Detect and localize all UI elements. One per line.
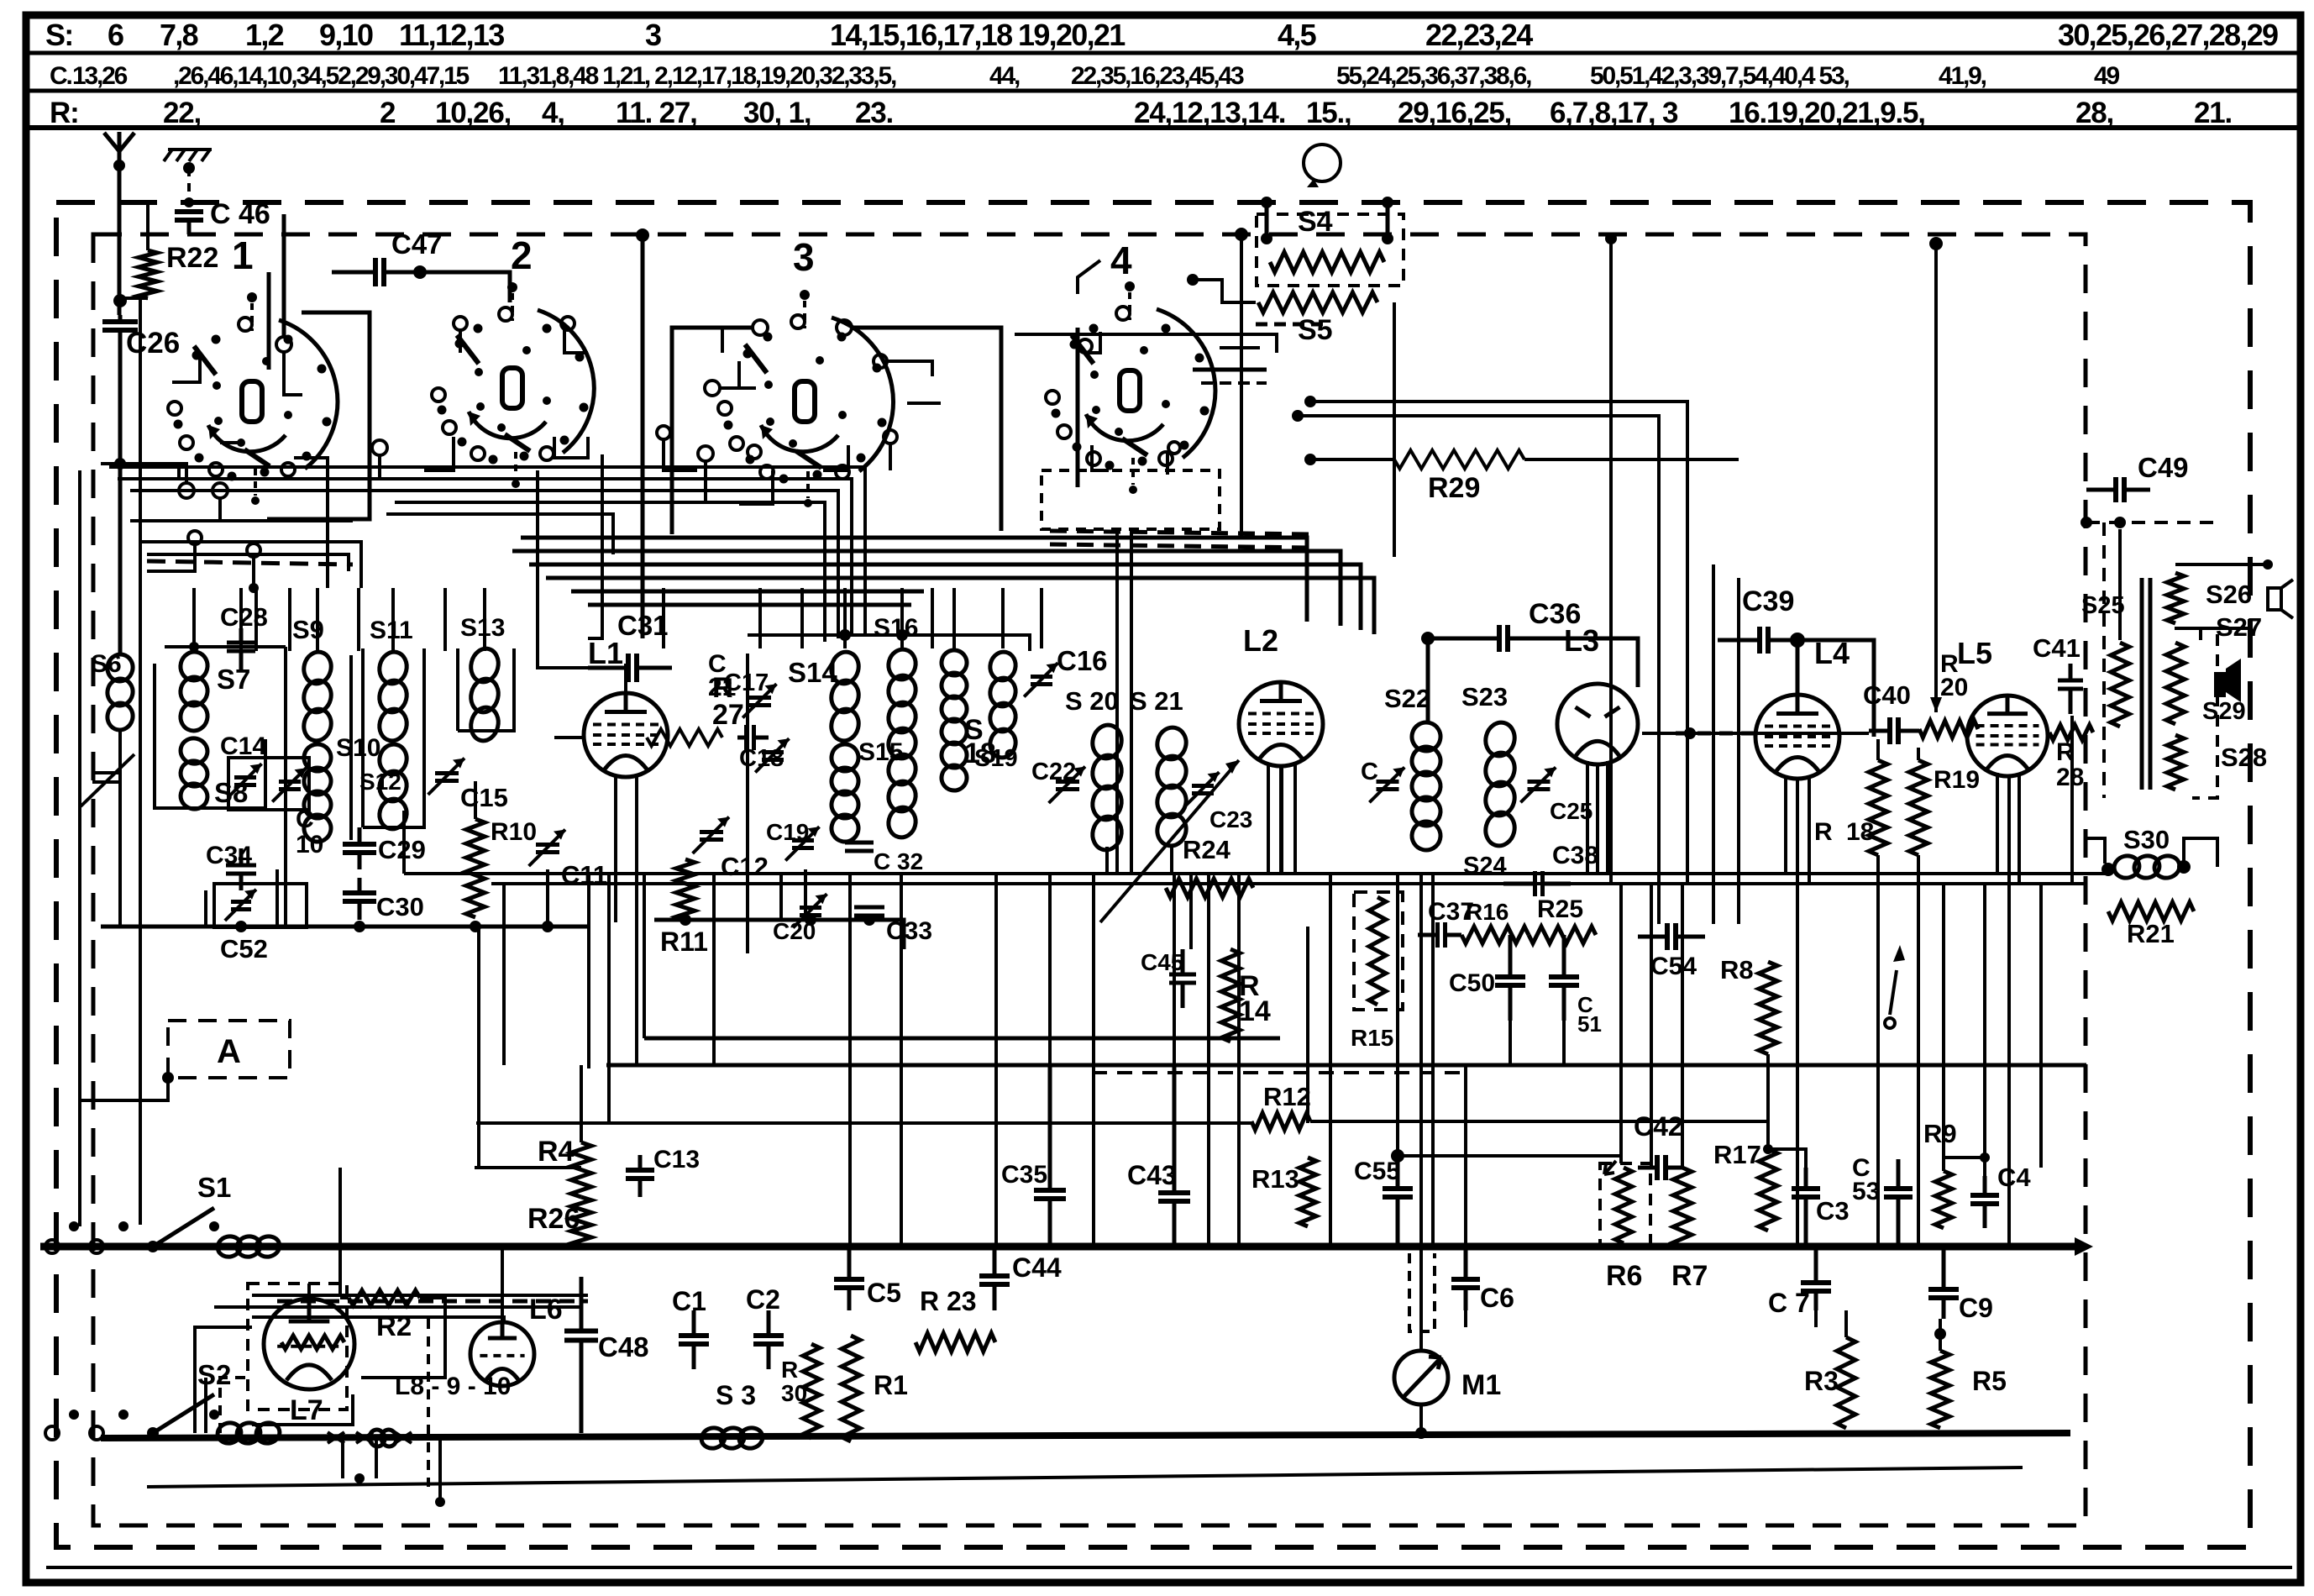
svg-text:22,: 22,	[163, 97, 201, 129]
svg-text:4,5: 4,5	[1278, 18, 1317, 52]
wire vert20	[1306, 927, 1309, 1123]
wire L7 bundle2	[214, 1305, 580, 1309]
capacitor C4	[1983, 1176, 1987, 1195]
capacitor C13	[638, 1155, 643, 1170]
wire drop M4	[931, 588, 934, 648]
resistor L7 grid	[281, 1336, 344, 1349]
wire bundle w2b	[386, 514, 613, 554]
wire vert32	[1766, 1054, 1770, 1149]
varcap C16	[1031, 677, 1052, 685]
inductor L8 row	[328, 1432, 412, 1443]
capacitor C5	[847, 1247, 852, 1279]
wire L1 grid left	[554, 736, 584, 739]
svg-text:C 32: C 32	[874, 848, 923, 874]
wire vert30	[1650, 884, 1653, 1168]
svg-text:28,: 28,	[2075, 97, 2113, 129]
capacitor C31	[588, 666, 628, 670]
wire R2 right down	[361, 1298, 445, 1378]
wire C11 bottom	[546, 869, 549, 927]
wire wafer3 right contacts	[874, 354, 887, 368]
capacitor C43	[1173, 1065, 1177, 1193]
varcap C17	[749, 698, 771, 706]
wire L1 top	[624, 664, 627, 693]
wire vert6	[712, 874, 716, 1065]
switch arm bottom	[1890, 970, 1897, 1015]
L7 dashed box	[248, 1284, 347, 1410]
speaker top	[2268, 588, 2281, 610]
wire vert31	[1681, 884, 1684, 1168]
wire transformer dashed left	[2102, 522, 2106, 798]
svg-text:R: R	[781, 1357, 798, 1383]
wire drop L9	[536, 588, 539, 651]
switch S2	[45, 1426, 59, 1440]
inductor S2coil	[216, 1420, 244, 1446]
capacitor C55	[1396, 1156, 1400, 1189]
wire bundle w3b	[512, 551, 1341, 626]
capacitor C29	[358, 827, 362, 844]
svg-text:S28: S28	[2221, 743, 2267, 772]
wire bundle left1	[109, 467, 865, 635]
svg-text:C19: C19	[766, 819, 809, 845]
varcap C14	[234, 778, 256, 785]
wire v1347 long	[1130, 529, 1133, 874]
wire h1236	[644, 1037, 1280, 1041]
resistor R19	[1909, 760, 1928, 855]
wire vert9	[848, 874, 852, 1245]
svg-text:R: R	[1814, 818, 1833, 846]
svg-text:30: 30	[781, 1380, 807, 1406]
capacitor C6	[1464, 1247, 1468, 1279]
svg-text:R22: R22	[166, 242, 218, 274]
resistor R7	[1673, 1168, 1692, 1247]
svg-text:C42: C42	[1634, 1111, 1683, 1142]
wire vbot0	[1464, 1310, 1467, 1327]
wire wafer4 box	[1076, 328, 1080, 487]
svg-text:15.,: 15.,	[1306, 97, 1351, 129]
inductor S9	[301, 649, 334, 687]
capacitor C34	[239, 848, 244, 865]
svg-text:R9: R9	[1923, 1119, 1957, 1148]
antenna	[104, 132, 134, 165]
wire L7 bundle hatch	[277, 1299, 588, 1304]
svg-text:1: 1	[232, 234, 254, 277]
resistor R12	[1251, 1113, 1310, 1130]
wire R18R19 tops	[1876, 739, 1880, 760]
inductor S1coil	[216, 1234, 244, 1259]
svg-text:M1: M1	[1461, 1369, 1501, 1401]
wire S4 right	[1386, 202, 1390, 239]
svg-text:C55: C55	[1354, 1158, 1400, 1185]
svg-text:C2: C2	[746, 1284, 780, 1315]
wire vert5	[662, 588, 665, 648]
wire wafer2 left contacts	[372, 440, 387, 455]
capacitor C40	[1869, 729, 1890, 733]
wire v405	[338, 1168, 342, 1295]
wire R22 top	[146, 204, 150, 250]
svg-text:C22: C22	[1031, 759, 1076, 785]
wire bundle w3c	[529, 564, 1361, 630]
resistor S25	[2111, 643, 2129, 727]
resistor R30	[803, 1344, 820, 1438]
svg-text:L4: L4	[1814, 636, 1850, 670]
svg-text:C13: C13	[653, 1146, 700, 1173]
capacitor C45	[1181, 949, 1185, 974]
inductor S10	[302, 742, 334, 774]
wire h1337 right	[1310, 1120, 1768, 1123]
svg-text:L5: L5	[1957, 636, 1992, 670]
capacitor C35	[1048, 1065, 1052, 1190]
resistor S5	[1258, 292, 1377, 312]
svg-text:C15: C15	[460, 783, 508, 812]
svg-text:C30: C30	[376, 892, 424, 921]
wire h1268 hatch	[1092, 1071, 1470, 1074]
wire L6 top	[501, 1247, 504, 1324]
wire S26 to speaker	[2175, 563, 2268, 566]
wire wafer1 contact d	[247, 543, 260, 557]
svg-text:20: 20	[1940, 674, 1968, 701]
varcap left of S6	[81, 754, 134, 806]
wire bundle w3f	[588, 603, 911, 607]
svg-text:S5: S5	[1298, 314, 1333, 346]
wire wafer1 box right	[267, 312, 370, 519]
svg-text:11,31,8,48 1,21, 2,12,17,18,19: 11,31,8,48 1,21, 2,12,17,18,19,20,32,33,…	[498, 62, 896, 90]
inductor S20	[1089, 722, 1126, 761]
wire L7 bottom box	[252, 1394, 353, 1425]
header row separator S/C	[26, 51, 2301, 55]
wire C36 node	[1421, 632, 1435, 645]
wire drop M2	[843, 588, 847, 648]
wire vert10	[900, 874, 903, 1245]
svg-text:C1: C1	[672, 1286, 706, 1316]
wire hatch L3L4	[1676, 732, 1760, 736]
svg-text:C45: C45	[1141, 949, 1183, 975]
wire S-block box bottom	[654, 920, 904, 949]
wire S13 to wafer	[483, 588, 486, 648]
wire v717	[588, 454, 602, 638]
svg-text:R29: R29	[1428, 472, 1480, 504]
wire left col b	[78, 588, 81, 1226]
svg-text:30,25,26,27,28,29: 30,25,26,27,28,29	[2058, 18, 2278, 52]
wire bundle w3a	[521, 538, 1307, 622]
svg-text:R:: R:	[50, 97, 79, 129]
wire bus y1035	[404, 872, 2108, 875]
svg-text:C9: C9	[1959, 1293, 1993, 1323]
svg-text:C44: C44	[1012, 1252, 1062, 1283]
inductor S12	[376, 742, 410, 778]
wire vert40	[2070, 716, 2074, 884]
wire L3 cathode leads	[1586, 761, 1589, 874]
resistor R24	[1166, 879, 1253, 897]
wire antenna down	[78, 470, 81, 588]
wire bundle left2	[118, 479, 852, 635]
svg-text:R16: R16	[1466, 899, 1509, 925]
resistor R1	[842, 1336, 860, 1441]
resistor R8	[1759, 962, 1777, 1054]
wire S20 bottom	[1105, 847, 1109, 874]
svg-text:19,20,21: 19,20,21	[1018, 18, 1126, 52]
wire wafer1 top feed	[282, 214, 286, 336]
resistor R10	[466, 819, 485, 917]
inductor S15	[829, 742, 862, 774]
svg-text:A: A	[217, 1033, 241, 1070]
wire L1 cathode leads	[614, 774, 617, 922]
dial lamp circle	[1304, 144, 1341, 181]
wire drop L8	[483, 588, 486, 651]
svg-text:C38: C38	[1552, 842, 1598, 869]
capacitor C44	[993, 1247, 997, 1276]
wire wafer3 box	[672, 328, 752, 534]
svg-text:3: 3	[793, 235, 815, 279]
wire vert26	[1509, 1021, 1512, 1065]
capacitor C38	[1503, 882, 1535, 886]
svg-text:R7: R7	[1671, 1260, 1708, 1292]
wire bus2 to L7 left	[204, 1378, 207, 1433]
vacuum tube L3	[1557, 684, 1638, 764]
inductor S21	[1154, 724, 1189, 762]
wire wafer3 runs	[739, 361, 756, 388]
inductor S18	[939, 648, 969, 678]
inductor S7	[177, 649, 210, 684]
wire vert24	[1431, 874, 1435, 1245]
svg-text:6,7,8,17, 3: 6,7,8,17, 3	[1550, 97, 1678, 129]
svg-text:C39: C39	[1742, 585, 1794, 617]
wire long h478	[1310, 402, 1687, 884]
resistor R15 dashed box	[1354, 892, 1403, 1010]
wire L7 top to R2	[307, 1284, 311, 1299]
vacuum tube L2	[1239, 682, 1323, 766]
wire S27 top link	[2175, 628, 2201, 640]
svg-text:S14: S14	[788, 657, 837, 688]
svg-text:41,9,: 41,9,	[1939, 62, 1986, 90]
dashed chassis frame inner	[93, 234, 2086, 1525]
capacitor C54	[1638, 935, 1667, 939]
wire vbot1	[1814, 1310, 1818, 1327]
wire M1 leads	[1419, 1247, 1423, 1351]
svg-text:50,51,42,3,39,7,54,40,4 53,: 50,51,42,3,39,7,54,40,4 53,	[1590, 62, 1849, 90]
wire v2040	[1712, 564, 1715, 924]
capacitor C33	[854, 907, 884, 916]
inductor S16	[885, 647, 919, 683]
resistor R23	[916, 1333, 995, 1352]
wire C31 left	[538, 470, 588, 668]
svg-text:L2: L2	[1243, 623, 1278, 658]
wire bundle left3	[130, 491, 838, 638]
varcap C23	[1192, 786, 1214, 794]
wire S4 left	[1265, 202, 1269, 239]
wire C39 node	[1790, 633, 1805, 648]
wire drop L0	[192, 588, 196, 651]
wire bundle w3d	[546, 578, 1374, 634]
svg-text:S2: S2	[197, 1359, 231, 1390]
wire L8 leads	[341, 1438, 344, 1478]
meter M1	[1394, 1351, 1448, 1404]
svg-text:21.: 21.	[2194, 97, 2232, 129]
wire wafer1 runs	[172, 357, 200, 382]
svg-text:C35: C35	[1001, 1161, 1047, 1189]
resistor R17	[1759, 1149, 1777, 1231]
resistor R21	[2108, 902, 2194, 921]
resistor R22	[139, 250, 157, 298]
svg-text:R8: R8	[1720, 955, 1754, 984]
varcap C22	[1056, 782, 1079, 790]
capacitor C47	[332, 270, 375, 275]
wire vbot2	[1844, 1310, 1848, 1337]
wire wafer1 box left	[267, 272, 271, 370]
vacuum tube L7	[264, 1299, 354, 1389]
svg-text:30, 1,: 30, 1,	[743, 97, 811, 129]
varcap C11	[536, 845, 559, 853]
wire drop M5	[952, 588, 956, 648]
capacitor C50	[1509, 935, 1513, 977]
varcap C52box	[214, 884, 307, 927]
svg-text:C6: C6	[1480, 1283, 1514, 1313]
wire h1390 left	[475, 1166, 581, 1169]
svg-text:C40: C40	[1863, 680, 1911, 710]
svg-text:51: 51	[1577, 1011, 1602, 1037]
varcap C24	[1377, 782, 1399, 790]
wire S5 left lead	[1193, 280, 1256, 302]
inductor S6	[105, 652, 136, 684]
wire vert11	[994, 874, 998, 1245]
wire C47 junction	[413, 265, 427, 279]
inductor S19	[987, 649, 1018, 683]
wire R9 top	[1944, 1158, 1985, 1176]
wire R22 bottom	[120, 297, 148, 300]
wire h1337 left	[476, 1121, 1251, 1125]
wire drop M3	[900, 588, 904, 648]
svg-text:R21: R21	[2127, 919, 2175, 948]
svg-text:11,12,13: 11,12,13	[399, 18, 504, 52]
wire v2305	[1934, 244, 1938, 712]
header row bottom line	[26, 125, 2301, 130]
svg-text:C50: C50	[1449, 969, 1495, 997]
svg-text:C5: C5	[867, 1278, 901, 1308]
wire vert29	[1619, 884, 1623, 1163]
capacitor C32	[845, 843, 874, 851]
wire R4 top vert	[580, 1065, 583, 1142]
svg-text:4,: 4,	[542, 97, 564, 129]
rotary switch wafer 4	[1157, 309, 1215, 458]
wire bundle hatch right	[1050, 531, 1310, 534]
wire L7 bundle3	[252, 1317, 504, 1324]
svg-text:28: 28	[2056, 764, 2084, 791]
svg-text:,26,46,14,10,34,52,29,30,47,15: ,26,46,14,10,34,52,29,30,47,15	[173, 62, 470, 90]
wire vert15	[1173, 874, 1176, 1065]
wire bus second	[101, 1433, 2070, 1438]
svg-text:C41: C41	[2033, 633, 2081, 663]
wire vert2	[587, 874, 590, 1068]
resistor S28	[2167, 735, 2184, 790]
inductor S11	[376, 649, 410, 687]
resistor S4	[1270, 252, 1384, 272]
wire vert21	[1329, 874, 1332, 1245]
svg-text:S11: S11	[370, 617, 413, 644]
wire S25 top	[2118, 529, 2122, 640]
svg-text:S 21: S 21	[1130, 686, 1183, 716]
wire v2009	[1686, 551, 1689, 884]
wire bundle left4	[139, 542, 361, 588]
svg-text:R5: R5	[1972, 1366, 2007, 1396]
svg-text:S16: S16	[874, 614, 918, 642]
wire vert8	[804, 869, 807, 920]
svg-text:C16: C16	[1057, 645, 1108, 676]
wire v1478 from frame	[1240, 234, 1243, 538]
resistor R14	[1221, 949, 1240, 1042]
capacitor C1	[692, 1310, 696, 1336]
wire antenna mid	[118, 165, 122, 315]
wire box S13	[456, 648, 459, 731]
wire C26 down	[118, 361, 123, 655]
wire vert22	[1396, 874, 1399, 1156]
wire left block bottom bus	[101, 925, 588, 929]
svg-text:C34: C34	[206, 842, 252, 869]
wire vert12	[1048, 874, 1052, 1065]
arrow S21	[1100, 760, 1239, 922]
svg-text:S12: S12	[359, 769, 401, 795]
ground symbol	[164, 150, 212, 161]
wire bus y1052	[491, 882, 2086, 885]
wire vert3	[607, 874, 611, 1123]
wire bus main	[40, 1243, 2075, 1251]
wire S-block box top	[748, 635, 1030, 651]
wire R17 C3 link	[1768, 1149, 1806, 1184]
wire wafer4 right hatch	[1193, 368, 1267, 372]
wire vert17	[1207, 874, 1210, 1245]
dashed chassis frame outer	[56, 202, 2250, 1547]
wire wafer4 dashed box	[1042, 470, 1220, 529]
wire drop M7	[1040, 588, 1043, 648]
varcap C15	[435, 774, 459, 781]
wire R29 left	[1310, 458, 1394, 461]
svg-text:C29: C29	[378, 835, 426, 864]
svg-text:S1: S1	[197, 1172, 231, 1203]
capacitor C9	[1942, 1247, 1946, 1289]
svg-text:6: 6	[108, 18, 123, 52]
svg-text:C54: C54	[1650, 953, 1697, 980]
wire C46 node	[184, 197, 194, 207]
wire box C14C10	[228, 758, 309, 810]
svg-text:22,35,16,23,45,43: 22,35,16,23,45,43	[1071, 62, 1244, 90]
wire bundle w3e	[571, 590, 924, 594]
wire S5 hatch	[1256, 323, 1323, 327]
wire v1918	[1609, 239, 1613, 884]
meter M1 dashed box	[1409, 1253, 1435, 1331]
capacitor C21	[737, 736, 747, 740]
capacitor C41	[2069, 664, 2073, 680]
resistor R26	[571, 1197, 591, 1247]
wire wafer4 h1	[1193, 334, 1277, 353]
wire h1268	[606, 1063, 2086, 1068]
svg-text:R19: R19	[1934, 766, 1980, 794]
wire wafer4 long1	[1015, 333, 1193, 336]
wire v1975	[1657, 580, 1661, 924]
svg-text:R26: R26	[527, 1203, 580, 1235]
varcap C10	[279, 782, 301, 790]
svg-text:3: 3	[645, 18, 661, 52]
capacitor C51	[1562, 935, 1566, 977]
svg-text:C47: C47	[391, 228, 443, 260]
wire vert13	[1092, 874, 1095, 1245]
resistor R20	[1919, 721, 1978, 738]
capacitor C39	[1718, 638, 1760, 643]
wire vert14	[1130, 550, 1133, 648]
wire h1384 right	[1398, 1154, 1621, 1158]
wire L4 cathode leads	[1784, 775, 1787, 874]
wire vert36	[1942, 884, 1945, 1171]
speaker mid	[2214, 672, 2226, 697]
svg-text:S9: S9	[292, 615, 324, 644]
wire L7 box	[220, 1378, 252, 1433]
